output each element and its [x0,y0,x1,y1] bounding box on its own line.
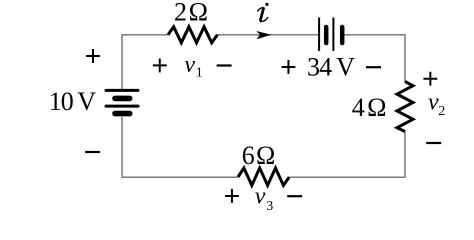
svg-text:V: V [77,87,96,116]
label v2 minus sign [426,142,441,144]
label + v1 - : plus sign [153,59,167,73]
svg-text:v: v [184,52,195,78]
svg-text:V: V [336,53,355,82]
voltage source V1 10V battery: long plate 1 [106,89,138,92]
resistor R2 4 ohm zigzag [397,82,413,132]
svg-text:3: 3 [307,53,320,82]
wire top-middle segment (between 2ohm resistor and 34V battery) [217,34,318,36]
voltage source V1 plus sign [86,49,100,63]
current label i [257,3,268,22]
label v2 plus sign [423,72,437,86]
wire top-right segment [345,35,406,82]
svg-text:Ω: Ω [189,0,208,27]
svg-text:Ω: Ω [367,93,386,122]
resistor R3 6 ohm zigzag [238,168,289,185]
svg-text:Ω: Ω [256,141,275,170]
wire top-left segment [122,35,168,89]
voltage source V2 34V battery: thin long plate 2 [332,18,334,52]
label + v3 - : plus sign [225,189,239,203]
wire right-bottom segment [290,132,405,178]
svg-text:6: 6 [242,141,255,170]
current arrow i [256,31,271,39]
svg-text:4: 4 [319,53,332,82]
voltage source V1 minus sign [85,151,100,153]
svg-text:0: 0 [61,87,74,116]
svg-text:2: 2 [174,0,187,27]
wire bottom-left segment [122,117,238,177]
voltage source V2 34V battery: thick short plate 1 [324,27,329,43]
label + 34 V - : plus sign [282,60,296,74]
svg-text:4: 4 [352,93,365,122]
voltage source V2 34V battery: thick short plate 2 [340,27,345,43]
label + v3 - : minus sign [287,195,302,197]
label + v1 - : minus sign [217,64,232,66]
voltage source V1 10V battery: long plate 2 [106,105,138,108]
resistor R1 2 ohm zigzag [168,27,217,43]
voltage source V2 34V battery: thin long plate 1 [318,18,320,52]
svg-text:2: 2 [438,104,445,119]
label + 34 V - : minus sign [366,66,381,68]
svg-text:v: v [255,184,266,210]
voltage source V1 10V battery: thick short plate 1 [115,96,130,102]
svg-text:3: 3 [266,199,273,214]
voltage source V1 10V battery: thick short plate 2 [115,111,130,117]
svg-text:1: 1 [196,65,203,80]
